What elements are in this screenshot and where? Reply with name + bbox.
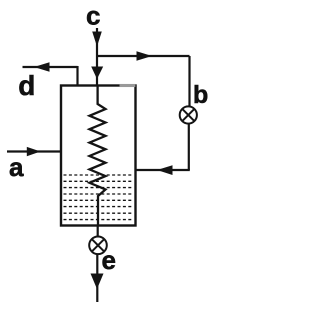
valve E (circle with X) [89,237,107,255]
wire: b branch right vertical (upper) [188,56,190,107]
wire: b branch right vertical (lower) [188,124,190,170]
wire: d branch horizontal [23,66,78,68]
svg-text:d: d [18,70,35,101]
wire: a inlet horizontal [7,150,61,152]
wire: e outlet upper [97,226,99,237]
wire: c inlet line [96,28,98,86]
wire: d branch vertical [76,66,78,86]
liquid level dashed lines [64,175,134,220]
svg-text:b: b [193,81,208,109]
arrowhead on b return (pointing left) [157,165,173,175]
heating coil (zigzag) inside vessel [90,86,106,226]
wire: b return horizontal into vessel [136,169,190,171]
valve B (circle with X) [180,106,197,123]
svg-text:c: c [86,1,100,31]
arrowhead on b top line (pointing right) [137,51,153,60]
arrowhead on c line (upper) [92,32,102,47]
arrowhead on d line (pointing left) [34,62,50,71]
wire: e outlet lower [96,254,98,302]
vessel V1 (column shell) [61,86,136,226]
svg-text:e: e [102,245,116,275]
arrowhead on e line (pointing down) [91,274,104,290]
svg-text:a: a [9,152,24,182]
arrowhead on c line (lower, at vessel top) [91,67,103,80]
arrowhead on a line (pointing right) [27,147,41,156]
wire: b branch top horizontal [97,55,190,57]
